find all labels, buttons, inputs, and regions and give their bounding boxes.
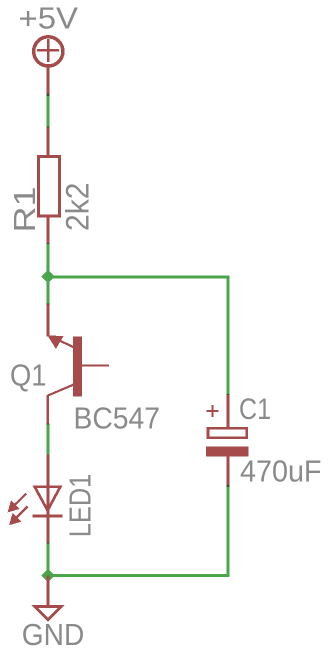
wire net VCC — [47, 94, 50, 128]
junction dark tick LED bottom — [47, 542, 50, 544]
junction dark tick emitter — [47, 423, 50, 455]
junction node B — [41, 569, 55, 583]
wire net LED-GND — [47, 543, 50, 575]
label 470uF — [240, 453, 322, 488]
LED light arrow 1 — [8, 494, 27, 513]
wire C1 top pin — [227, 395, 230, 428]
wire net horizontal top — [47, 275, 230, 278]
label LED1 — [63, 474, 98, 538]
wire net emitter-LED — [47, 424, 50, 455]
wire R1 bottom pin — [47, 216, 50, 246]
wire net right vertical upper — [226, 276, 229, 396]
junction dark tick collector — [47, 304, 50, 306]
wire LED1 pins — [47, 454, 50, 544]
label BC547 — [74, 401, 161, 436]
supply symbol +5V — [34, 37, 63, 66]
wire Q1 collector pin — [47, 305, 50, 337]
junction dark tick top — [47, 93, 50, 129]
label +5V — [19, 1, 79, 36]
svg-text:LED1: LED1 — [63, 474, 98, 538]
svg-text:R1: R1 — [7, 187, 42, 233]
svg-text:+5V: +5V — [19, 1, 79, 36]
wire C1 bottom pin — [227, 456, 230, 487]
wire Q1 emitter pin — [47, 395, 50, 425]
wire net right vertical lower — [226, 485, 229, 576]
svg-text:Q1: Q1 — [10, 358, 47, 393]
ground symbol — [35, 607, 62, 621]
junction dark tick C1 top — [227, 394, 230, 396]
capacitor C1 plus sign — [206, 405, 218, 417]
svg-text:470uF: 470uF — [240, 453, 322, 488]
wire net node top — [47, 244, 50, 277]
transistor Q1 — [47, 335, 109, 396]
wire net horizontal bottom — [47, 574, 230, 577]
resistor R1 — [39, 157, 60, 216]
wire net collector — [47, 277, 50, 306]
svg-text:GND: GND — [22, 617, 85, 652]
label C1 — [239, 393, 271, 426]
wire R1 top pin — [47, 128, 50, 158]
svg-text:2k2: 2k2 — [60, 183, 96, 232]
label GND — [22, 617, 85, 652]
wire GND pin — [47, 576, 50, 607]
label Q1 — [10, 358, 47, 393]
wire supply pin — [47, 66, 50, 96]
junction dark tick C1 bottom — [227, 485, 230, 487]
capacitor C1 — [206, 428, 248, 456]
label 2k2 — [60, 183, 96, 232]
LED LED1 — [33, 487, 63, 516]
junction dark tick R1 — [47, 243, 50, 245]
junction node A — [41, 270, 55, 284]
svg-text:BC547: BC547 — [74, 401, 161, 436]
label R1 — [7, 187, 42, 233]
svg-text:C1: C1 — [239, 393, 271, 426]
LED light arrow 2 — [9, 506, 28, 525]
